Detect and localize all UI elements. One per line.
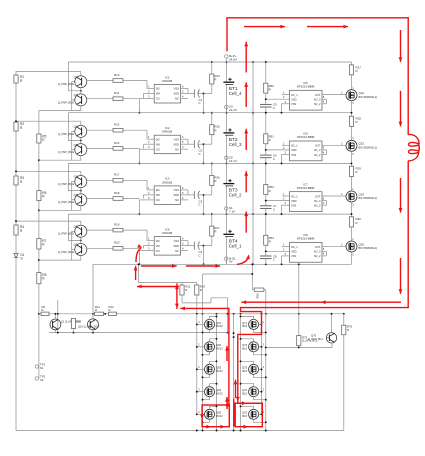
- svg-text:NC_1: NC_1: [291, 93, 298, 97]
- resistor R23: [195, 283, 206, 314]
- svg-text:4: 4: [182, 196, 184, 200]
- battery BT2: [223, 112, 242, 164]
- svg-text:XP2213-BBM: XP2213-BBM: [297, 186, 315, 190]
- svg-text:DO: DO: [156, 188, 160, 192]
- wire rail R5-R8: [38, 111, 40, 367]
- resistor R27: [204, 213, 221, 245]
- svg-text:R: R: [185, 288, 187, 292]
- svg-text:2: 2: [263, 366, 265, 369]
- IC8 nc wires: [322, 247, 327, 256]
- svg-text:VDD: VDD: [173, 142, 179, 146]
- svg-text:Q62: Q62: [216, 343, 222, 347]
- resistor R20: [113, 241, 139, 250]
- svg-text:R: R: [356, 69, 358, 73]
- svg-text:CO: CO: [156, 147, 160, 151]
- resistor R21: [180, 283, 191, 303]
- svg-text:VSS: VSS: [174, 137, 180, 141]
- IC6 out wire: [322, 141, 346, 145]
- svg-text:CO: CO: [156, 198, 160, 202]
- IC U3 DW01B: [154, 177, 180, 205]
- svg-text:XP2213-BBM: XP2213-BBM: [297, 135, 315, 139]
- svg-text:NC_2: NC_2: [314, 153, 321, 157]
- svg-text:1: 1: [283, 141, 285, 145]
- svg-text:2: 2: [283, 247, 285, 251]
- wire matrix rail L2: [216, 314, 218, 431]
- svg-text:C: C: [199, 253, 201, 257]
- resistor R13: [113, 73, 147, 82]
- wire cap node: [203, 245, 205, 266]
- resistor R27 chain: [349, 62, 361, 90]
- red arrow matrix mid up: [234, 380, 238, 398]
- transistor Q61: [196, 315, 223, 333]
- transistor Q74: [240, 383, 267, 401]
- wire gate bus left: [196, 314, 198, 415]
- IC3 pin6 wire: [181, 186, 189, 195]
- svg-text:XP2213-BBM: XP2213-BBM: [297, 237, 315, 241]
- svg-text:BV12: BV12: [216, 392, 223, 396]
- IC2 pin1 wire: [147, 130, 154, 139]
- IC U7 XP2213: [290, 182, 323, 211]
- red arrow right flow 3: [399, 178, 403, 213]
- resistor R2: [14, 122, 24, 131]
- wire cell feed ch3: [68, 163, 81, 191]
- svg-text:DW01B: DW01B: [162, 180, 172, 184]
- wire matrix rail R1: [240, 314, 242, 431]
- transistor Q2: [58, 72, 87, 88]
- svg-text:VDD: VDD: [291, 250, 297, 254]
- IC7 pin2 wire: [265, 197, 290, 202]
- svg-text:2: 2: [341, 91, 343, 95]
- resistor R14: [113, 91, 139, 100]
- svg-text:3: 3: [285, 252, 287, 256]
- wire Q9 collector: [39, 256, 81, 261]
- wire matrix top bus: [196, 313, 345, 315]
- svg-text:Q6: Q6: [74, 175, 78, 179]
- transistor Q22: [346, 87, 377, 106]
- svg-text:1: 1: [148, 135, 150, 139]
- svg-text:5: 5: [323, 95, 325, 99]
- svg-text:1: 1: [352, 188, 354, 191]
- svg-text:3: 3: [285, 201, 287, 205]
- svg-text:BL5: BL5: [242, 369, 247, 373]
- IC8 pin2 wire: [265, 247, 290, 252]
- svg-text:BV12: BV12: [216, 347, 223, 351]
- svg-text:C: C: [273, 208, 275, 212]
- svg-text:VDD: VDD: [291, 199, 297, 203]
- svg-text:3: 3: [148, 247, 150, 251]
- IC2 pin2 wire: [144, 140, 155, 148]
- svg-text:NC: NC: [175, 249, 179, 253]
- resistor R6: [37, 191, 47, 201]
- svg-text:0V: 0V: [229, 260, 233, 264]
- svg-text:DO: DO: [156, 87, 160, 91]
- svg-text:3: 3: [352, 254, 354, 257]
- IC1 pin1 wire: [147, 81, 154, 89]
- resistor R11: [95, 305, 104, 315]
- svg-text:6: 6: [182, 135, 184, 139]
- IC1 pin3 wire: [138, 95, 154, 114]
- svg-text:VDD: VDD: [173, 193, 179, 197]
- IC7 out wire: [322, 192, 346, 196]
- wire bottom bus: [16, 430, 344, 432]
- IC6 nc wires: [322, 146, 327, 155]
- svg-text:2: 2: [341, 192, 343, 196]
- svg-text:R: R: [95, 308, 97, 312]
- node S2: [225, 155, 237, 163]
- wire channel3 top: [15, 170, 81, 172]
- wire matrix rail R2: [265, 290, 267, 431]
- IC7 pin1 wire: [282, 192, 290, 196]
- transistor Q24: [346, 188, 377, 207]
- resistor R8: [37, 273, 47, 284]
- red arrow B- flow 2: [186, 264, 220, 268]
- svg-text:6: 6: [182, 85, 184, 89]
- wire emitter Q5: [87, 147, 113, 149]
- test point TP1: [35, 362, 45, 370]
- svg-text:R13: R13: [114, 73, 120, 77]
- IC2 pin3 wire: [138, 145, 154, 164]
- svg-text:Q8: Q8: [74, 225, 78, 229]
- battery BT1: [223, 61, 242, 113]
- svg-text:2: 2: [263, 388, 265, 391]
- svg-text:4: 4: [323, 252, 325, 256]
- resistor R76: [342, 314, 353, 431]
- svg-text:Q72: Q72: [242, 343, 248, 347]
- wire bus 1: [68, 112, 351, 114]
- transistor Q76: [308, 333, 337, 343]
- svg-text:VDD: VDD: [291, 148, 297, 152]
- red arrow Q65 box b: [220, 425, 225, 429]
- red route return run: [180, 307, 229, 311]
- svg-text:Q73: Q73: [242, 366, 248, 370]
- svg-text:VSS: VSS: [291, 204, 296, 208]
- svg-text:1: 1: [148, 186, 150, 190]
- red arrow Q65 box a: [206, 425, 211, 429]
- svg-text:Q5: Q5: [74, 143, 78, 147]
- svg-text:OUT: OUT: [315, 93, 321, 97]
- svg-text:BL5: BL5: [242, 392, 247, 396]
- IC U2 DW01B: [154, 126, 180, 154]
- IC U1 DW01B: [154, 75, 180, 103]
- IC3 pin5 wire: [181, 191, 195, 195]
- svg-text:4: 4: [323, 150, 325, 154]
- IC4 pin1 wire: [147, 230, 154, 241]
- svg-text:6: 6: [182, 237, 184, 241]
- svg-text:Q4: Q4: [74, 125, 78, 129]
- svg-text:R: R: [109, 308, 111, 312]
- svg-text:2: 2: [341, 243, 343, 247]
- svg-text:Q71: Q71: [242, 321, 248, 325]
- svg-text:1: 1: [352, 137, 354, 140]
- svg-text:3: 3: [148, 95, 150, 99]
- svg-text:1: 1: [283, 192, 285, 196]
- svg-text:R: R: [214, 128, 216, 132]
- red arrow matrix mid down: [236, 397, 240, 402]
- svg-text:4: 4: [323, 100, 325, 104]
- svg-text:BL5: BL5: [242, 324, 247, 328]
- IC5 pin2 wire: [265, 95, 290, 100]
- resistor R17: [113, 173, 147, 182]
- red arrow divider down: [175, 283, 179, 308]
- svg-text:NC: NC: [175, 97, 179, 101]
- svg-text:VDD: VDD: [173, 92, 179, 96]
- svg-text:R10: R10: [76, 320, 81, 324]
- svg-text:Q24: Q24: [359, 192, 365, 196]
- svg-text:R: R: [214, 230, 216, 234]
- resistor R1: [14, 75, 24, 83]
- transistor Q73: [240, 360, 267, 378]
- resistor R30 chain: [349, 202, 361, 241]
- svg-text:3: 3: [148, 145, 150, 149]
- svg-text:BV12: BV12: [216, 369, 223, 373]
- svg-text:NC_2: NC_2: [314, 204, 321, 208]
- transistor Q9: [58, 243, 87, 256]
- svg-text:5: 5: [182, 191, 184, 195]
- resistor R15: [113, 123, 147, 132]
- wire Q2-Q3 link: [80, 88, 82, 94]
- wire bus 4: [93, 263, 352, 265]
- wire Q6-Q7 link: [80, 188, 82, 194]
- svg-text:NC_2: NC_2: [314, 102, 321, 106]
- wire matrix rail L1: [203, 274, 253, 431]
- svg-text:NC_3: NC_3: [314, 199, 321, 203]
- wire emitter Q8: [87, 229, 113, 231]
- wire divider top: [138, 263, 197, 282]
- svg-text:2: 2: [198, 411, 200, 414]
- svg-text:C: C: [199, 203, 201, 207]
- svg-text:2: 2: [198, 343, 200, 346]
- svg-text:2: 2: [283, 197, 285, 201]
- svg-text:CO: CO: [156, 249, 160, 253]
- red arrow B- up: [134, 266, 138, 280]
- IC8 pin3 wire: [281, 252, 290, 265]
- red arrow B- flow 1: [141, 264, 177, 268]
- resistor R7: [37, 239, 47, 250]
- wire bus 0: [68, 61, 351, 63]
- red arrow Q75 enter: [242, 401, 247, 405]
- transistor Q62: [196, 338, 223, 356]
- resistor R4: [14, 225, 24, 235]
- transistor Q71: [240, 315, 267, 333]
- svg-text:R: R: [214, 78, 216, 82]
- wire Q76 emitter: [265, 343, 332, 349]
- junction dots rail2: [38, 159, 40, 314]
- transistor Q4: [58, 121, 87, 137]
- svg-text:R: R: [42, 195, 45, 199]
- node S1: [225, 206, 236, 214]
- transistor Q65: [196, 405, 223, 423]
- wire cap node: [203, 194, 205, 215]
- svg-text:5: 5: [182, 140, 184, 144]
- svg-text:Q_PNP_BCE: Q_PNP_BCE: [58, 200, 74, 204]
- svg-text:1: 1: [148, 237, 150, 241]
- wire Q5 collector: [39, 156, 81, 161]
- svg-text:C: C: [273, 106, 275, 110]
- red arrow right flow 4: [399, 258, 403, 294]
- svg-text:4: 4: [182, 95, 184, 99]
- svg-text:2: 2: [198, 388, 200, 391]
- svg-text:DO: DO: [156, 137, 160, 141]
- IC2 pin4 wire: [181, 145, 189, 149]
- capacitor C4: [194, 242, 203, 258]
- wire base feed rail: [57, 300, 59, 333]
- red arrow matrix up 1: [225, 346, 229, 361]
- transistor Q23: [346, 137, 377, 156]
- svg-text:Q_PNP_BCE: Q_PNP_BCE: [58, 232, 74, 236]
- resistor R5: [37, 134, 47, 143]
- red arrow matrix up 2: [225, 397, 229, 409]
- svg-text:Q9: Q9: [74, 243, 78, 247]
- capacitor C3: [194, 191, 203, 207]
- wire emitter Q3: [87, 98, 113, 100]
- svg-text:DW01B: DW01B: [162, 231, 172, 235]
- wire B- to matrix: [298, 263, 300, 335]
- svg-text:Q64: Q64: [216, 388, 222, 392]
- svg-text:D: D: [21, 256, 24, 260]
- svg-text:3: 3: [285, 151, 287, 155]
- svg-text:5: 5: [323, 196, 325, 200]
- svg-text:R: R: [200, 288, 202, 292]
- wire channel4 top: [15, 220, 81, 222]
- IC8 pin1 wire: [282, 243, 290, 247]
- red arrow string flow 3: [244, 171, 248, 192]
- IC2 pin5 wire: [181, 140, 195, 144]
- svg-text:5: 5: [182, 242, 184, 246]
- IC5 pin1 wire: [282, 91, 290, 95]
- wire emitter Q9: [87, 247, 113, 249]
- svg-text:S2: S2: [40, 378, 44, 382]
- resistor R25: [204, 112, 221, 144]
- red route top run: [226, 17, 408, 19]
- wire cell feed ch1: [68, 62, 81, 92]
- red arrow divider left: [137, 285, 179, 289]
- svg-text:S1: S1: [40, 366, 44, 370]
- wire cap node: [203, 93, 205, 114]
- battery BT4: [223, 213, 242, 264]
- svg-text:VDD: VDD: [173, 244, 179, 248]
- IC4 pin3 wire: [138, 247, 154, 266]
- wire left rail: [15, 71, 17, 431]
- wire cap node: [203, 143, 205, 164]
- svg-text:BL5: BL5: [242, 414, 247, 418]
- svg-text:3: 3: [285, 100, 287, 104]
- svg-text:C: C: [273, 258, 275, 262]
- resistor R9: [41, 305, 49, 315]
- IC1 pin5 wire: [181, 90, 195, 94]
- transistor Q25: [346, 238, 377, 257]
- IC6 pin1 wire: [282, 141, 290, 145]
- svg-text:R17: R17: [114, 173, 120, 177]
- wire chain bottom: [351, 252, 353, 264]
- IC4 pin4 wire: [181, 247, 189, 251]
- svg-text:Q2: Q2: [74, 75, 78, 79]
- transistor Q6: [58, 171, 87, 187]
- red arrow string curl: [237, 255, 250, 265]
- wire string sense drop: [251, 263, 253, 289]
- resistor R18: [113, 191, 139, 200]
- svg-text:Q10 Q_NPN_BCE: Q10 Q_NPN_BCE: [78, 325, 100, 329]
- svg-text:BSY050N03LQ: BSY050N03LQ: [359, 145, 377, 149]
- test point TP2: [35, 367, 45, 382]
- svg-text:R19: R19: [114, 223, 120, 227]
- svg-text:2: 2: [263, 321, 265, 324]
- svg-text:24.8V: 24.8V: [229, 57, 237, 61]
- IC3 pin2 wire: [144, 191, 155, 199]
- svg-text:Q7: Q7: [74, 193, 78, 197]
- svg-text:VSS: VSS: [174, 87, 180, 91]
- IC3 pin3 wire: [138, 196, 154, 215]
- svg-text:5: 5: [323, 146, 325, 150]
- svg-text:Q76: Q76: [311, 334, 317, 338]
- IC6 pin3 wire: [281, 151, 290, 165]
- wire emitter Q4: [87, 129, 113, 131]
- svg-text:R: R: [269, 87, 271, 91]
- svg-text:Q_PNP_BCE: Q_PNP_BCE: [58, 150, 74, 154]
- svg-text:R: R: [20, 180, 23, 184]
- IC U5 XP2213: [290, 81, 323, 110]
- svg-text:C: C: [273, 157, 275, 161]
- svg-text:3: 3: [352, 102, 354, 105]
- svg-text:NC: NC: [175, 147, 179, 151]
- wire base bus ch1: [72, 82, 75, 111]
- svg-text:Q25: Q25: [359, 242, 365, 246]
- wire Q3 collector: [39, 106, 81, 111]
- svg-text:21.2V: 21.2V: [229, 108, 237, 112]
- resistor R50: [264, 61, 275, 114]
- svg-text:1: 1: [283, 91, 285, 95]
- svg-text:R16: R16: [114, 141, 120, 145]
- wire channel1 top: [16, 71, 81, 73]
- svg-text:Cell_1: Cell_1: [229, 243, 242, 248]
- resistor R75: [297, 335, 318, 347]
- svg-text:Q_PNP_BCE: Q_PNP_BCE: [58, 250, 74, 254]
- svg-text:2: 2: [148, 140, 150, 144]
- wire emitter Q6: [87, 179, 113, 181]
- svg-text:3: 3: [148, 196, 150, 200]
- wire divider bottom: [182, 298, 229, 315]
- svg-text:Q_PNP_BCE: Q_PNP_BCE: [58, 100, 74, 104]
- resistor R53: [264, 213, 275, 265]
- red route matrix left: [228, 308, 230, 405]
- IC1 pin6 wire: [181, 85, 189, 94]
- transistor Q10: [78, 319, 100, 330]
- svg-text:4: 4: [323, 201, 325, 205]
- svg-text:R: R: [214, 179, 216, 183]
- resistor R16: [113, 141, 139, 150]
- node B+P+: [225, 54, 237, 62]
- svg-text:BL5: BL5: [242, 347, 247, 351]
- svg-text:R: R: [269, 189, 271, 193]
- capacitor C7: [260, 204, 277, 214]
- svg-text:Q61: Q61: [216, 321, 222, 325]
- red loop Q65: [202, 405, 229, 427]
- svg-text:2: 2: [198, 321, 200, 324]
- transistor Q5: [58, 143, 87, 156]
- svg-text:1: 1: [283, 243, 285, 247]
- transistor Q1: [50, 313, 81, 330]
- resistor R52: [264, 162, 275, 215]
- svg-text:C: C: [199, 152, 201, 156]
- transistor Q63: [196, 360, 223, 378]
- svg-text:VSS: VSS: [291, 254, 296, 258]
- red arrow Q65 box c: [200, 414, 204, 419]
- svg-text:R: R: [20, 79, 23, 83]
- wire cell feed ch2: [68, 113, 81, 142]
- wire Q7 collector: [39, 206, 81, 211]
- svg-text:2: 2: [198, 366, 200, 369]
- svg-text:VDD: VDD: [291, 98, 297, 102]
- svg-text:NC_2: NC_2: [314, 254, 321, 258]
